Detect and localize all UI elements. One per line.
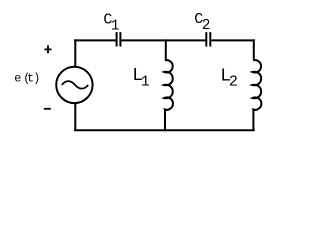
svg-text:): ) [33, 72, 40, 86]
svg-text:2: 2 [202, 18, 211, 34]
svg-text:e: e [14, 72, 21, 86]
svg-text:2: 2 [229, 74, 238, 91]
svg-text:1: 1 [111, 18, 120, 34]
svg-text:1: 1 [141, 74, 150, 91]
